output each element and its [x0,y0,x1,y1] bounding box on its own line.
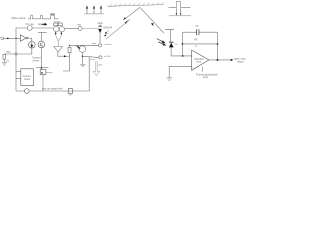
node rail circle [27,26,32,31]
svg-text:+: + [192,66,194,69]
hollow down arrow [93,62,100,76]
wire noninv input [169,66,192,77]
svg-text:light: light [98,64,102,67]
wire top rail [16,27,54,29]
wire PD down [170,47,172,56]
received pulse waveform [168,2,190,8]
leader line label [201,67,203,72]
svg-text:to LED: to LED [104,55,111,58]
node dot inv [182,55,184,57]
node junction dot [15,53,17,55]
wire LED cathode down [99,33,101,43]
sync pulse tip [51,14,54,16]
node input junction [15,28,17,38]
amplifier buffer A1 [20,35,26,41]
wire inverting input [171,55,192,57]
node dot fb left [182,43,184,45]
resistor R4 vertical [68,47,71,52]
LED light arrows [106,30,109,33]
svg-text:drive: drive [92,42,97,45]
emitter junction [82,52,84,64]
svg-text:block: block [24,78,30,81]
photodiode D2 [169,41,174,43]
wire junction to current source [4,48,32,54]
svg-text:R1 R2: R1 R2 [54,22,61,24]
svg-text:1k: 1k [195,45,197,47]
svg-text:amp: amp [196,61,201,64]
wire RF [183,43,218,45]
ceiling hatched line [108,5,164,7]
sync separator box [21,69,34,86]
svg-text:R3: R3 [6,60,10,62]
wire input [4,37,21,39]
node mid circle [78,26,82,30]
bottom bus [16,57,89,91]
wire diff pair tails [56,35,58,46]
transistor Q2 [59,27,64,32]
resistor R1 [54,23,58,26]
input waveform baseline [28,14,59,19]
feedback right vertical [217,32,219,60]
wire to LED top [82,27,98,29]
svg-text:RF: RF [194,39,198,42]
pulse arrows down [175,8,177,14]
op-amp U1 [192,50,209,70]
wire row A [69,44,98,46]
svg-text:return: return [90,58,95,61]
inverted triangle stage [54,47,63,53]
wire output [209,59,231,61]
emitter arrow Q1 [55,32,57,34]
node connector A2 [99,44,102,47]
bus component circle [25,89,30,94]
node dot fb right [217,43,219,45]
transistor Q3 [79,46,86,53]
resistor Rterm [3,54,6,59]
ray left [124,7,140,19]
svg-text:PD: PD [175,44,178,46]
wire mirror column [41,48,43,70]
clamp box [40,70,46,75]
LED D1 [99,24,101,26]
svg-text:amp: amp [203,76,209,79]
svg-text:75Ω: 75Ω [6,51,11,54]
svg-text:to driver: to driver [104,43,112,46]
wire rail to LED branch [65,27,82,29]
ground noninv [167,78,173,80]
ray right [140,8,164,34]
ground under Q3 [80,64,86,66]
svg-text:CF: CF [195,25,199,28]
ground [2,63,7,65]
node dot mirror [41,67,43,69]
wire fb top [183,31,197,33]
svg-text:mirror: mirror [33,60,40,63]
wire input node down [15,38,17,91]
emitter arrow Q2 [60,32,62,34]
bus battery [68,89,72,94]
base arrow dark [77,46,80,48]
wire stub into box [16,71,21,73]
svg-text:HSDL44: HSDL44 [103,28,112,30]
node dot out [217,59,219,61]
transistor Q1 [54,27,59,32]
wire apex down right with arrow [58,52,64,56]
wire to ground [3,59,5,62]
wire R4 top to rail A [68,45,70,47]
node connector B2 [99,56,102,59]
bias tee [165,29,174,31]
wire R4 bottom down and left [63,53,69,71]
PD light arrows [157,39,165,43]
three up light arrows [84,13,104,15]
capacitor CF [196,29,198,35]
svg-text:output: output [237,61,244,64]
input terminal [1,37,4,40]
svg-text:Vcc reg: Vcc reg [25,22,34,26]
wire to current source [31,38,33,41]
svg-text:sig: sig [38,23,42,26]
output arrow [231,59,234,61]
receive line [169,15,191,17]
svg-text:Video input: Video input [11,16,26,20]
ray LED to ceiling [106,20,130,39]
transistor Q5 [38,41,45,48]
svg-text:-5V: -5V [68,95,72,97]
svg-text:sync tip clamp level: sync tip clamp level [42,88,63,91]
arrow current direction [42,23,46,25]
svg-text:-: - [193,55,194,58]
wire T base feed [38,31,47,33]
current source I1 [29,42,36,49]
feedback left vertical [182,32,184,56]
wire emitter to row B [83,56,98,57]
wire buffer out [28,37,32,39]
resistor R2 [58,23,62,26]
svg-text:Iset: Iset [77,24,81,27]
